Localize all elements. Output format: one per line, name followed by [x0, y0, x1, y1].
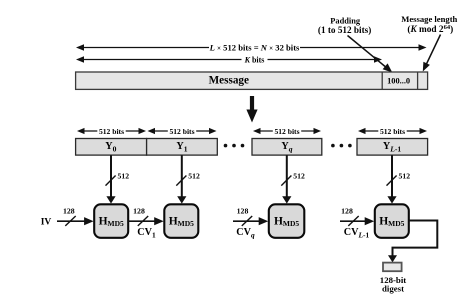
svg-text:128: 128 [63, 207, 75, 216]
svg-text:CVL-1: CVL-1 [344, 227, 370, 239]
svg-text:512: 512 [399, 172, 411, 181]
svg-text:128: 128 [341, 207, 353, 216]
svg-text:CVq: CVq [236, 227, 255, 239]
svg-text:512 bits: 512 bits [99, 127, 124, 136]
svg-text:CV1: CV1 [137, 227, 156, 239]
svg-text:K bits: K bits [244, 56, 265, 65]
svg-text:512 bits: 512 bits [380, 127, 405, 136]
svg-text:IV: IV [41, 218, 52, 228]
svg-text:digest: digest [382, 284, 404, 294]
svg-text:(K mod 264): (K mod 264) [407, 24, 453, 35]
svg-text:512: 512 [118, 172, 130, 181]
svg-text:512: 512 [188, 172, 200, 181]
svg-text:128: 128 [237, 207, 249, 216]
svg-text:Message length: Message length [401, 14, 457, 24]
svg-text:100...0: 100...0 [387, 76, 410, 85]
svg-text:(1 to 512 bits): (1 to 512 bits) [318, 25, 371, 35]
svg-text:512: 512 [293, 172, 305, 181]
svg-text:128: 128 [133, 207, 145, 216]
svg-text:512 bits: 512 bits [169, 127, 194, 136]
svg-text:Message: Message [209, 74, 249, 86]
svg-text:512 bits: 512 bits [274, 127, 299, 136]
svg-text:L × 512 bits = N × 32 bits: L × 512 bits = N × 32 bits [209, 43, 300, 53]
